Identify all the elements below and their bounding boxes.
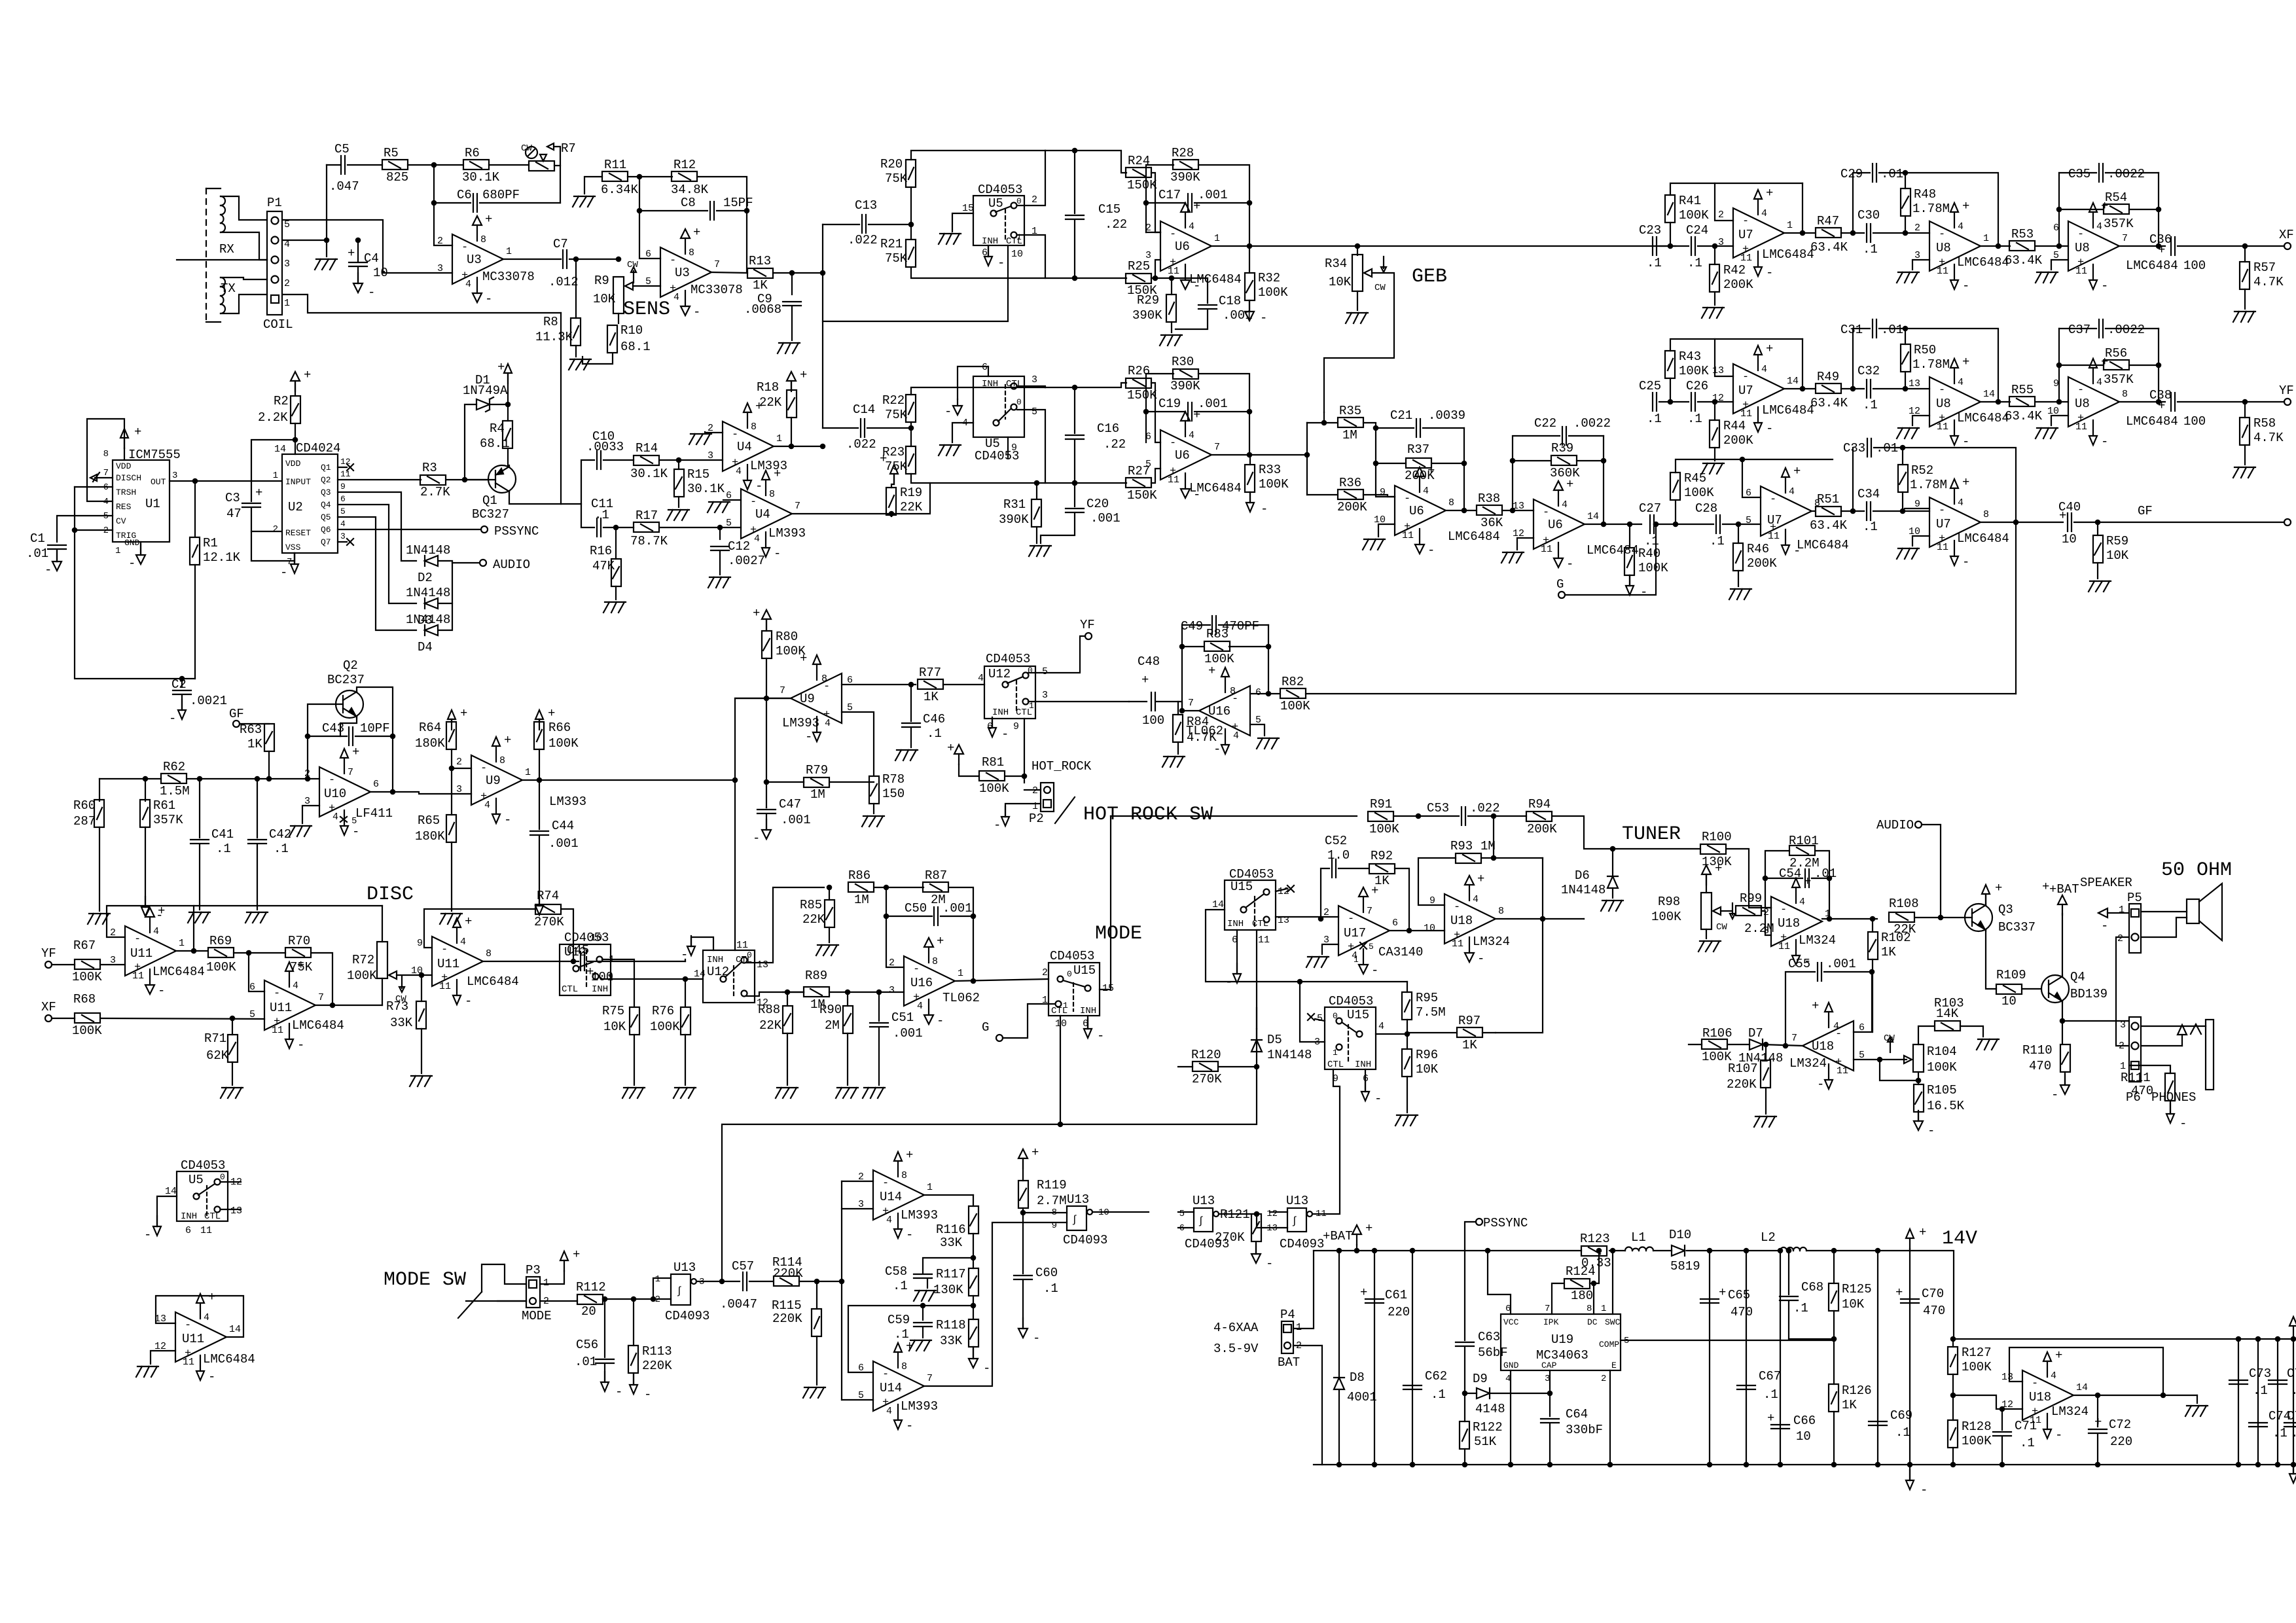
resistor R101 — [1789, 834, 1820, 870]
capacitor C20 — [1066, 497, 1121, 526]
node junction — [73, 528, 77, 532]
resistor R126 — [1829, 1383, 1872, 1412]
svg-text:6: 6 — [373, 779, 379, 790]
node junction — [1462, 461, 1466, 465]
node junction — [571, 959, 575, 963]
wire u11d loop — [156, 1296, 243, 1337]
svg-text:U14: U14 — [880, 1381, 902, 1395]
svg-text:14: 14 — [274, 444, 286, 455]
svg-text:P2: P2 — [1029, 811, 1044, 826]
capacitor C70 — [1895, 1285, 1945, 1318]
svg-text:R9: R9 — [594, 274, 609, 288]
node junction — [1073, 385, 1077, 389]
svg-text:825: 825 — [386, 170, 408, 185]
V+ power — [787, 368, 807, 391]
resistor R35 — [1338, 404, 1363, 442]
wire c61 vert — [1374, 1251, 1375, 1465]
resistor R115 — [772, 1298, 821, 1336]
svg-text:8: 8 — [901, 1361, 907, 1372]
wire C4 minus — [357, 267, 359, 283]
wire vup14 stem — [1909, 1249, 1910, 1251]
svg-text:5: 5 — [858, 1390, 864, 1401]
svg-text:1: 1 — [958, 968, 963, 979]
resistor R66 — [534, 721, 579, 751]
svg-text:1: 1 — [525, 767, 531, 778]
wire R1 bot — [194, 565, 196, 679]
svg-text:+: + — [573, 1247, 580, 1262]
capacitor C62 — [1403, 1369, 1447, 1402]
svg-text:2: 2 — [456, 757, 462, 768]
svg-text:XF: XF — [41, 1000, 56, 1014]
wire Q6 PSSYNC — [338, 529, 481, 530]
V- power — [169, 700, 186, 726]
svg-text:11: 11 — [1168, 266, 1179, 277]
nand gate U13b — [1266, 1194, 1327, 1251]
wire p4 p2 — [1293, 1346, 1322, 1465]
resistor R28 — [1170, 146, 1200, 185]
wire long GF return line — [1306, 693, 2016, 694]
svg-text:C63: C63 — [1478, 1330, 1500, 1344]
node junction — [617, 257, 620, 261]
wire U6d pin12 gnd — [1517, 538, 1534, 550]
resistor R55 — [2005, 383, 2043, 423]
op-amp U7 — [1909, 475, 2009, 569]
svg-text:Q4: Q4 — [321, 500, 331, 510]
svg-text:7: 7 — [1188, 698, 1194, 709]
svg-text:+: + — [548, 706, 555, 721]
node junction — [574, 257, 578, 261]
svg-text:C7: C7 — [553, 237, 568, 251]
svg-text:+: + — [1767, 1411, 1774, 1425]
node junction — [2057, 207, 2061, 211]
wire G wire — [1003, 1004, 1055, 1038]
wire top rail2 — [1609, 1250, 1625, 1251]
svg-text:100K: 100K — [1962, 1434, 1992, 1448]
svg-text:C70: C70 — [1922, 1287, 1944, 1301]
svg-text:C50: C50 — [905, 901, 927, 916]
wire R64 vup — [451, 720, 452, 722]
resistor R37 — [1405, 442, 1435, 483]
svg-text:.01: .01 — [1881, 323, 1903, 337]
svg-text:HOT_ROCK: HOT_ROCK — [1031, 759, 1092, 774]
wire R61 drop — [145, 779, 146, 801]
ground — [673, 1088, 696, 1098]
svg-text:6: 6 — [185, 1225, 191, 1236]
node junction — [1058, 1122, 1062, 1126]
wire coll to C10 — [561, 460, 594, 504]
wire C19 right — [1194, 411, 1249, 412]
wire u17 out — [1390, 930, 1444, 931]
wire U12a pin3 — [1028, 701, 1129, 702]
svg-text:C30: C30 — [1857, 208, 1880, 223]
resistor R80 — [762, 630, 806, 658]
wire Q1 coll — [509, 493, 561, 504]
svg-text:C75: C75 — [2287, 1366, 2296, 1381]
svg-text:1: 1 — [1333, 1048, 1338, 1058]
wire r114 right — [799, 1281, 842, 1282]
diode D2 — [406, 543, 450, 585]
wire fb right vert2 — [1603, 436, 1604, 524]
svg-text:+: + — [1141, 673, 1149, 687]
wire pin6 R82 — [1250, 693, 1280, 694]
svg-text:RX: RX — [219, 242, 234, 257]
wire C44 drop — [539, 780, 540, 829]
svg-text:4: 4 — [1423, 486, 1429, 497]
svg-text:8: 8 — [486, 948, 492, 959]
node junction — [884, 914, 888, 918]
wire yf r42 drop — [1714, 402, 1715, 420]
svg-text:-: - — [1928, 1124, 1935, 1138]
svg-text:220K: 220K — [772, 1311, 802, 1326]
svg-text:C35: C35 — [2068, 167, 2090, 181]
svg-text:5: 5 — [1369, 942, 1374, 952]
svg-text:10: 10 — [2062, 532, 2077, 546]
wire R2 bot — [295, 423, 296, 454]
svg-text:6: 6 — [1083, 1018, 1088, 1029]
svg-text:4: 4 — [1799, 897, 1805, 908]
svg-text:1: 1 — [1601, 1304, 1606, 1314]
svg-text:R95: R95 — [1416, 991, 1438, 1005]
svg-text:P4: P4 — [1280, 1308, 1295, 1322]
node junction — [2057, 244, 2061, 248]
node junction — [2243, 400, 2247, 404]
node junction — [821, 444, 825, 448]
wire C34 right — [1873, 510, 1903, 512]
wire u11a out — [176, 950, 207, 952]
svg-text:+: + — [947, 741, 954, 755]
resistor R62 — [160, 760, 190, 798]
svg-text:220K: 220K — [1727, 1077, 1757, 1092]
svg-text:1: 1 — [1029, 701, 1034, 711]
svg-text:INH: INH — [992, 707, 1009, 718]
node junction — [1876, 1463, 1880, 1467]
wire p4 p1 — [1293, 1251, 1314, 1329]
wire out to split — [1306, 454, 1308, 455]
svg-text:4: 4 — [978, 673, 984, 684]
V- power — [141, 897, 163, 923]
capacitor C30 — [1857, 208, 1880, 257]
svg-text:5: 5 — [1031, 406, 1037, 418]
wire R35 right — [1363, 423, 1395, 497]
label HOT ROCK SW — [1083, 804, 1213, 826]
svg-text:1.78M: 1.78M — [1912, 202, 1950, 216]
op-amp U4 — [726, 467, 806, 561]
wire R8 drop — [575, 259, 577, 318]
svg-text:C27: C27 — [1639, 501, 1661, 516]
wire diode bus — [439, 561, 452, 630]
svg-text:11: 11 — [1937, 421, 1948, 433]
svg-text:13: 13 — [1712, 365, 1724, 376]
svg-text:-: - — [1766, 421, 1773, 436]
wire r101 right — [1816, 851, 1829, 919]
svg-text:R115: R115 — [772, 1298, 802, 1313]
svg-text:R125: R125 — [1842, 1282, 1872, 1296]
svg-text:U8: U8 — [1936, 241, 1951, 255]
svg-text:6: 6 — [1505, 1304, 1511, 1314]
svg-text:0: 0 — [747, 950, 752, 960]
end — [1042, 995, 1048, 1006]
svg-text:+: + — [2059, 508, 2066, 523]
svg-text:R71: R71 — [204, 1031, 226, 1046]
node junction — [1592, 1281, 1596, 1285]
wire r120 left — [1178, 1066, 1193, 1067]
node junction — [764, 696, 768, 700]
svg-text:0: 0 — [1016, 196, 1022, 206]
svg-text:U13: U13 — [1286, 1194, 1308, 1208]
wire xf c35 right — [2106, 172, 2159, 173]
V- power — [1084, 1018, 1104, 1043]
svg-text:1: 1 — [1214, 233, 1220, 244]
svg-text:5: 5 — [249, 1009, 255, 1020]
capacitor C28 — [1695, 501, 1725, 548]
wire xf-r68 — [52, 1018, 75, 1019]
svg-text:14: 14 — [1787, 376, 1799, 387]
ground — [1160, 335, 1182, 346]
svg-text:68.1: 68.1 — [480, 437, 510, 451]
svg-text:R100: R100 — [1702, 830, 1732, 844]
pin 10 U12b — [590, 933, 602, 944]
V+ power — [448, 706, 467, 730]
svg-text:LM324: LM324 — [1789, 1056, 1827, 1071]
capacitor C75 — [2269, 1366, 2296, 1398]
wire r99 right — [1762, 911, 1771, 935]
svg-text:8: 8 — [2122, 389, 2128, 400]
end — [1317, 1013, 1323, 1024]
svg-text:BAT: BAT — [1278, 1355, 1300, 1370]
svg-text:.0068: .0068 — [744, 302, 781, 317]
wire c58 row — [923, 1258, 973, 1274]
svg-text:R117: R117 — [936, 1267, 966, 1281]
svg-text:DISC: DISC — [367, 883, 414, 906]
wire r115 drop — [816, 1281, 817, 1309]
wire u15b inh — [1365, 1069, 1366, 1092]
capacitor C52 — [1325, 834, 1350, 878]
svg-text:U18: U18 — [1450, 914, 1473, 928]
wire r81 right — [1005, 776, 1024, 777]
svg-text:D8: D8 — [1350, 1370, 1365, 1385]
svg-text:.1: .1 — [1644, 534, 1659, 548]
svg-text:.1: .1 — [1043, 1281, 1058, 1296]
wire q4 coll — [2062, 914, 2063, 975]
svg-text:11: 11 — [1768, 531, 1780, 542]
wire c60 minus — [1022, 1280, 1024, 1329]
label R121 — [1220, 1207, 1250, 1222]
svg-text:13: 13 — [154, 1313, 166, 1325]
wire r116-r117 — [973, 1234, 974, 1268]
wire jack w2 — [2141, 1045, 2182, 1046]
diode D8 — [1334, 1370, 1377, 1404]
svg-text:TRSH: TRSH — [116, 488, 136, 497]
wire R18 vup — [791, 382, 792, 390]
wire u11c out — [483, 961, 579, 962]
wire coll to C11 — [581, 504, 594, 527]
svg-text:-: - — [2077, 384, 2084, 397]
wire r119 vup — [1022, 1159, 1024, 1181]
svg-text:YF: YF — [1080, 618, 1095, 632]
wire hyst fb — [1496, 919, 1543, 1033]
svg-text:R59: R59 — [2106, 534, 2128, 548]
svg-text:-: - — [1266, 1257, 1273, 1271]
svg-text:4: 4 — [1958, 221, 1964, 232]
svg-text:C60: C60 — [1035, 1266, 1058, 1280]
wire C20 gnd — [1041, 513, 1075, 543]
AUDIO terminal — [480, 558, 530, 572]
node junction — [1298, 980, 1302, 984]
wire yf c1-c2 — [1659, 401, 1689, 402]
svg-text:5: 5 — [340, 507, 346, 516]
svg-text:C47: C47 — [779, 797, 801, 811]
svg-text:.1: .1 — [1647, 256, 1662, 270]
capacitor C23 — [1639, 223, 1662, 270]
analog switch U15b — [1325, 994, 1376, 1070]
resistor R59 — [2093, 534, 2129, 563]
ground — [939, 445, 961, 455]
svg-text:C19: C19 — [1158, 397, 1181, 411]
svg-text:C3: C3 — [225, 491, 240, 505]
svg-text:270K: 270K — [534, 915, 564, 929]
svg-text:100K: 100K — [979, 781, 1009, 796]
node junction — [1247, 453, 1251, 457]
svg-text:SPEAKER: SPEAKER — [2080, 876, 2132, 890]
wire u17 pin3 gnd — [1322, 944, 1338, 954]
resistor R58 — [2240, 416, 2284, 445]
end — [165, 1186, 177, 1197]
op-amp U14 — [858, 1148, 938, 1242]
svg-text:-: - — [1001, 727, 1009, 741]
wire spk wire2 — [2141, 918, 2187, 937]
wire C5 drop — [326, 165, 327, 240]
svg-text:1K: 1K — [924, 690, 939, 704]
capacitor C37 — [2068, 319, 2145, 338]
node junction — [1668, 244, 1672, 248]
svg-text:C15: C15 — [1098, 202, 1121, 217]
node junction — [1407, 929, 1411, 933]
svg-text:R73: R73 — [386, 999, 408, 1014]
fix r115 — [0, 0, 1, 1]
wire c55 right — [1824, 971, 1872, 972]
svg-text:4: 4 — [1378, 1021, 1384, 1032]
svg-text:-: - — [1817, 1077, 1824, 1092]
node junction — [1851, 509, 1855, 513]
capacitor C48 — [1138, 654, 1164, 728]
ground — [914, 1291, 936, 1301]
node junction — [230, 1016, 234, 1020]
node junction — [2256, 1463, 2260, 1467]
wire C43 right — [355, 736, 393, 737]
wire c65 vert — [1709, 1251, 1710, 1465]
svg-text:CD4053: CD4053 — [564, 931, 609, 945]
svg-text:7: 7 — [780, 685, 785, 696]
svg-text:63.4K: 63.4K — [1810, 518, 1848, 533]
ground — [622, 1088, 645, 1098]
wire r101 left — [1765, 851, 1789, 908]
svg-text:0: 0 — [1333, 1011, 1338, 1021]
node junction — [331, 1003, 334, 1007]
svg-text:C16: C16 — [1097, 421, 1119, 436]
svg-text:R12: R12 — [673, 158, 696, 172]
pin 6 U5a — [982, 247, 988, 259]
svg-text:YF: YF — [2279, 383, 2294, 398]
wire r119-u13d — [1023, 1212, 1067, 1213]
svg-text:LMC6484: LMC6484 — [1762, 403, 1814, 418]
wire c56 minus — [604, 1364, 605, 1382]
wire R11-R12 — [628, 176, 672, 177]
op-amp U4 — [708, 399, 787, 493]
svg-text:-: - — [1939, 505, 1945, 517]
label 10 — [373, 266, 388, 280]
node junction — [827, 885, 831, 889]
fix c68 — [0, 0, 1, 1]
wire fb left vert — [1182, 625, 1210, 711]
wire C15 bot — [1074, 220, 1075, 278]
pin 15 U5a — [962, 203, 974, 214]
connector P2 HOT_ROCK — [1029, 783, 1054, 826]
wire U5a pin1 — [1017, 235, 1045, 278]
wire u5c p12 stub — [221, 1181, 241, 1183]
svg-text:CD4093: CD4093 — [1063, 1233, 1107, 1247]
svg-text:C17: C17 — [1158, 188, 1181, 202]
V+ power — [947, 741, 963, 764]
fix c65 — [0, 0, 1, 1]
svg-text:220: 220 — [2110, 1435, 2132, 1449]
svg-text:.001: .001 — [942, 901, 973, 916]
label L2 — [1761, 1230, 1776, 1245]
svg-text:-: - — [1766, 266, 1773, 280]
wire pin6 drop — [249, 953, 264, 991]
svg-text:1K: 1K — [753, 278, 768, 293]
svg-text:9: 9 — [1011, 442, 1017, 454]
svg-text:+: + — [880, 452, 887, 466]
svg-text:470: 470 — [1731, 1305, 1753, 1319]
svg-text:3: 3 — [708, 450, 713, 461]
node junction — [1602, 459, 1605, 463]
wire C74 vert — [2257, 1339, 2259, 1465]
svg-text:INH: INH — [982, 379, 998, 389]
svg-text:3: 3 — [284, 259, 290, 270]
svg-text:+: + — [800, 368, 807, 382]
capacitor C1 — [26, 531, 66, 561]
node junction — [1871, 917, 1874, 921]
node junction — [1951, 1393, 1955, 1397]
wire R63 bot — [268, 751, 270, 779]
svg-text:680PF: 680PF — [482, 188, 520, 202]
capacitor C55 — [1788, 957, 1856, 981]
svg-text:22K: 22K — [759, 1018, 782, 1033]
wire r126 bot — [1833, 1412, 1835, 1465]
ground — [1601, 901, 1623, 911]
wire R45 top — [1676, 459, 1833, 473]
svg-text:.22: .22 — [1105, 217, 1127, 232]
capacitor C76 — [2284, 1409, 2296, 1440]
svg-text:3: 3 — [1145, 250, 1151, 261]
svg-text:-: - — [2179, 1116, 2187, 1131]
svg-text:VCC: VCC — [1503, 1317, 1519, 1327]
pin 13 U15c — [1278, 915, 1289, 926]
op-amp U11 — [411, 914, 519, 1008]
wire yf r48 top — [1905, 329, 1906, 344]
capacitor C63 — [1456, 1330, 1508, 1360]
V+ power — [1982, 881, 2002, 904]
op-amp U9 — [780, 651, 853, 744]
svg-text:INH: INH — [982, 236, 998, 247]
node junction — [1608, 1463, 1612, 1467]
resistor R22 — [882, 393, 916, 422]
node junction — [2000, 1407, 2004, 1411]
node junction — [2276, 1337, 2280, 1341]
svg-text:R72: R72 — [352, 953, 374, 967]
wire r88 link — [783, 991, 804, 993]
svg-text:12: 12 — [2001, 1399, 2013, 1410]
